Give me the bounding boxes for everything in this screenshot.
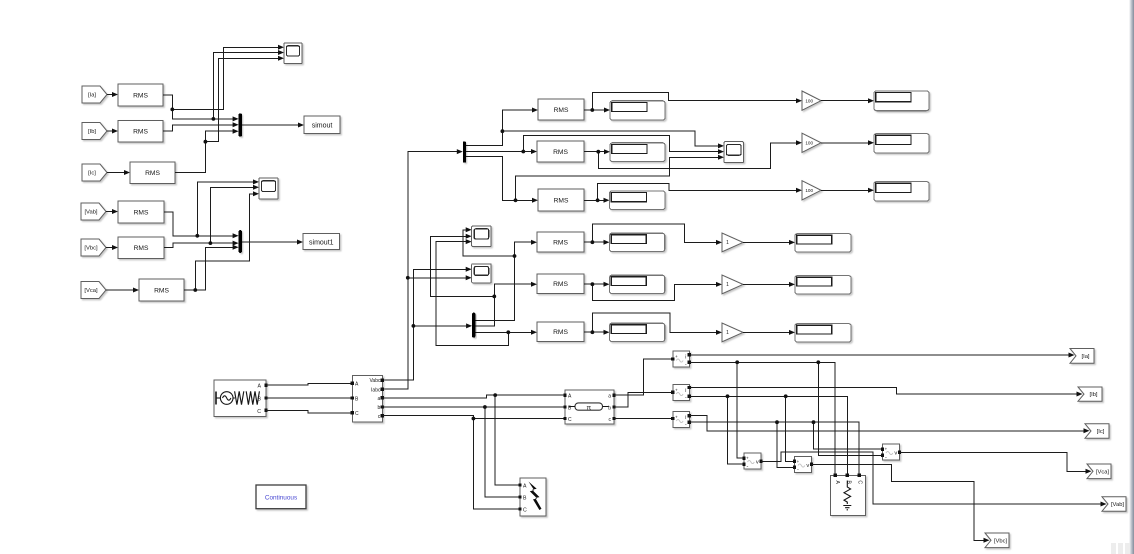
display Display5 — [610, 275, 665, 293]
gain Gain3 value 100 — [802, 181, 821, 200]
wire mux1 output to simout — [242, 124, 299, 126]
svg-text:RMS: RMS — [553, 329, 568, 336]
voltage measurement block VM3 Vca — [883, 444, 900, 460]
scope Scope1 — [284, 43, 302, 64]
svg-text:Vabc: Vabc — [369, 378, 381, 384]
wire RMS row6 to Display6 and Gain6 — [584, 313, 716, 332]
gain Gain5 value 1 — [722, 275, 743, 294]
svg-text:a: a — [378, 396, 381, 402]
wire Gain6 to Display right6 — [743, 331, 789, 333]
wire RMS row3 to Display3 and Gain3 — [584, 184, 796, 201]
svg-text:RMS: RMS — [134, 209, 149, 216]
RMS block row3 — [538, 189, 584, 211]
RMS block RMS2 — [118, 121, 163, 143]
svg-text:RMS: RMS — [154, 287, 169, 294]
svg-text:[Vab]: [Vab] — [1111, 502, 1124, 508]
wire CM1 through to load A, VM1 plus and VM3 minus — [689, 362, 882, 473]
three-phase parallel RLC load block — [830, 475, 865, 515]
wire demux2 out1 to RMS row4 and scope4 in1 — [463, 230, 531, 321]
RMS block RMS6 — [139, 279, 184, 301]
svg-text:π: π — [586, 404, 591, 411]
demux Demux2 — [472, 313, 475, 338]
wire PI line b to current measurement CM2 — [614, 392, 671, 407]
display DisplayR5 — [795, 276, 851, 294]
scope Scope4 — [472, 226, 492, 247]
svg-text:+: + — [675, 354, 678, 359]
svg-text:100: 100 — [805, 140, 813, 145]
wire Gain4 to Display right4 — [743, 241, 789, 243]
wire RMS6 output to mux2 in3 and scope2 in3 — [184, 194, 253, 290]
svg-text:RMS: RMS — [553, 281, 568, 288]
from tag [Vab] — [81, 203, 106, 220]
wire RMS row4 to Display4 and Gain4 — [584, 224, 716, 242]
goto tag [Ia] — [1070, 349, 1094, 364]
three-phase V-I measurement block — [352, 376, 382, 422]
display Display2 — [610, 143, 665, 162]
svg-text:b: b — [378, 405, 381, 411]
display Display1 — [610, 101, 665, 120]
svg-text:i: i — [685, 388, 686, 394]
wire source C to measurement C — [266, 410, 352, 412]
RMS block RMS4 — [118, 201, 164, 223]
gain Gain6 value 1 — [722, 323, 743, 342]
scope Scope2 — [259, 178, 278, 199]
svg-text:[Ib]: [Ib] — [1089, 392, 1097, 398]
svg-text:C: C — [523, 508, 527, 514]
scope Scope5 — [472, 264, 492, 283]
svg-text:v: v — [894, 451, 897, 457]
wire CM3 through to load C, VM2 minus and VM3 plus — [689, 422, 882, 473]
RMS block RMS5 — [118, 237, 164, 259]
svg-text:A: A — [523, 484, 527, 490]
wire measurement a to PI line A and fault A — [382, 395, 565, 485]
svg-text:RMS: RMS — [554, 107, 569, 114]
wire CM3 i output to goto [Ic] — [689, 416, 1084, 431]
wire measurement c to PI line C and fault C — [382, 416, 565, 509]
from tag [Vca] — [81, 282, 106, 299]
wire mux2 output to simout1 — [242, 241, 298, 243]
svg-text:simout: simout — [312, 123, 333, 130]
svg-text:RMS: RMS — [145, 170, 160, 177]
display DisplayR6 — [795, 324, 851, 342]
svg-text:[Vab]: [Vab] — [84, 210, 97, 216]
wire demux1 out2 to RMS row2 and scope3 in2 — [466, 135, 718, 151]
wire RMS row5 to Display5 and Gain5 — [584, 284, 716, 300]
wire RMS3 output to mux1 in3 and scope1 in3 — [175, 58, 278, 172]
wire CM2 through to load B, VM1 minus and VM2 plus — [689, 396, 847, 473]
svg-text:+: + — [746, 456, 749, 461]
current measurement block CM2 phase B — [673, 385, 690, 401]
wire [Vab] to RMS4 — [106, 211, 112, 213]
svg-text:-: - — [797, 467, 799, 473]
wire RMS2 output to mux1 in2 — [163, 125, 233, 131]
svg-text:+: + — [885, 447, 888, 452]
svg-text:RMS: RMS — [133, 129, 148, 136]
display DisplayR1 — [874, 91, 929, 111]
svg-text:[Vca]: [Vca] — [84, 288, 98, 294]
wire Gain3 to Display right3 — [821, 189, 868, 191]
wire RMS row2 to Display2 and Gain2 — [584, 143, 796, 169]
wire source A to measurement A — [266, 383, 352, 385]
svg-text:1: 1 — [726, 330, 729, 336]
demux Demux1 — [463, 142, 466, 163]
scope Scope3 — [724, 142, 744, 163]
svg-text:RMS: RMS — [554, 197, 569, 204]
svg-text:C: C — [257, 409, 261, 415]
svg-text:+: + — [675, 388, 678, 393]
wire Gain2 to Display right2 — [821, 142, 868, 144]
svg-text:RMS: RMS — [553, 149, 568, 156]
wire demux1 out1 to RMS row1 and scope3 in1 — [466, 110, 718, 146]
svg-text:[Ia]: [Ia] — [1081, 354, 1089, 360]
goto tag [Ic] — [1085, 424, 1109, 438]
svg-text:simout1: simout1 — [309, 240, 334, 247]
display Display4 — [610, 233, 665, 251]
wire RMS1 output to scope1 in1, scope1 in2 and mux1 in1 — [163, 47, 278, 119]
wire CM2 i output to goto [Ib] — [689, 388, 1077, 395]
svg-text:RMS: RMS — [134, 245, 149, 252]
svg-text:C: C — [355, 411, 359, 417]
wire CM1 i output to goto [Ia] — [689, 354, 1069, 356]
watermark bars bottom right — [1111, 543, 1116, 554]
wire VM2 output to goto [Vbc] — [812, 464, 984, 540]
svg-text:100: 100 — [805, 188, 813, 193]
wire RMS row1 to Display1 and Gain1 — [584, 93, 796, 110]
three-phase PI section line block — [565, 390, 614, 424]
goto tag [Vab] — [1102, 497, 1126, 511]
gain Gain1 value 100 — [802, 91, 821, 110]
svg-text:RMS: RMS — [133, 92, 148, 99]
wire [Vca] to RMS6 — [106, 289, 133, 291]
scrollbar right edge — [0, 0, 1, 1]
svg-text:C: C — [568, 417, 572, 423]
goto tag [Ib] — [1078, 387, 1102, 401]
svg-text:i: i — [685, 415, 686, 421]
wire Vabc bus from measurement block to scope5 in1 and demux2 — [382, 269, 466, 380]
to-workspace block simout1 — [303, 234, 340, 250]
RMS block RMS1 — [118, 84, 163, 106]
svg-text:RMS: RMS — [553, 239, 568, 246]
RMS block row6 — [537, 322, 584, 342]
svg-text:B: B — [258, 396, 262, 402]
wire [Vbc] to RMS5 — [106, 247, 112, 249]
wire RMS4 output to mux2 in1 and scope2 in1 — [164, 182, 253, 236]
display DisplayR3 — [874, 182, 929, 202]
wire Gain5 to Display right5 — [743, 283, 789, 285]
svg-text:1: 1 — [726, 282, 729, 288]
wire VM1 output to goto [Vab] — [761, 452, 1101, 504]
voltage measurement block VM1 Vab — [744, 453, 761, 469]
svg-text:[Ib]: [Ib] — [88, 129, 96, 135]
wire [Ic] to RMS3 — [107, 172, 124, 174]
wire demux1 out3 to RMS row3 and scope3 in3 — [466, 157, 718, 201]
RMS block row1 — [538, 99, 584, 120]
from tag [Ic] — [82, 164, 107, 181]
gain Gain4 value 1 — [722, 233, 743, 252]
svg-text:Continuous: Continuous — [265, 495, 297, 502]
svg-text:100: 100 — [805, 98, 813, 103]
display DisplayR2 — [874, 134, 929, 154]
svg-text:b: b — [608, 405, 611, 411]
from tag [Ia] — [82, 86, 107, 103]
svg-text:a: a — [608, 393, 611, 399]
svg-text:1: 1 — [726, 240, 729, 246]
display Display3 — [610, 191, 666, 210]
from tag [Vbc] — [81, 239, 106, 256]
svg-text:[Ic]: [Ic] — [88, 171, 96, 177]
wire demux2 out2 to RMS row5 and scope4 in2 — [431, 236, 532, 326]
from tag [Ib] — [82, 123, 107, 140]
to-workspace block simout — [304, 116, 340, 134]
wire PI line c to current measurement CM3 — [614, 418, 671, 420]
svg-text:v: v — [806, 463, 809, 469]
three-phase fault block — [520, 478, 546, 516]
wire [Ia] to RMS1 — [107, 94, 112, 96]
svg-text:+: + — [675, 415, 678, 420]
wire RMS5 output to mux2 in2 and scope2 in2 — [164, 187, 253, 247]
current measurement block CM1 phase A — [673, 351, 690, 367]
display DisplayR4 — [795, 234, 851, 252]
svg-text:[Vbc]: [Vbc] — [994, 538, 1008, 544]
display Display6 — [610, 323, 665, 341]
svg-text:Iabc: Iabc — [371, 387, 381, 393]
svg-text:C: C — [856, 480, 862, 484]
goto tag [Vca] — [1087, 464, 1111, 479]
svg-text:i: i — [685, 355, 686, 361]
RMS block row2 — [537, 141, 584, 162]
svg-text:v: v — [756, 460, 759, 466]
wire source B to measurement B — [266, 397, 352, 399]
powergui block Continuous — [256, 485, 306, 509]
wire VM3 output to goto [Vca] — [900, 452, 1086, 471]
voltage measurement block VM2 Vbc — [795, 457, 812, 473]
wire [Ib] to RMS2 — [107, 130, 112, 132]
gain Gain2 value 100 — [802, 133, 821, 152]
RMS block row5 — [537, 274, 584, 294]
svg-text:[Vbc]: [Vbc] — [84, 246, 98, 252]
RMS block row4 — [537, 232, 584, 252]
goto tag [Vbc] — [985, 533, 1009, 548]
svg-text:+: + — [797, 459, 800, 464]
svg-text:[Vca]: [Vca] — [1096, 469, 1110, 475]
mux Mux2 — [239, 230, 242, 253]
svg-text:[Ic]: [Ic] — [1097, 429, 1105, 435]
mux Mux1 — [239, 113, 242, 136]
wire PI line a to current measurement CM1 — [614, 359, 671, 395]
wire Iabc bus from measurement block to demux1 and scope5 in2 — [382, 152, 466, 390]
svg-text:-: - — [885, 454, 887, 460]
wire Gain1 to Display right1 — [821, 100, 868, 102]
svg-text:-: - — [746, 463, 748, 469]
RMS block RMS3 — [130, 162, 175, 184]
wire measurement b to PI line B and fault B — [382, 407, 565, 497]
current measurement block CM3 phase C — [673, 412, 690, 428]
svg-text:A: A — [258, 384, 262, 390]
three-phase source block — [214, 380, 266, 416]
svg-text:B: B — [523, 496, 527, 502]
wire demux2 out3 to RMS row6 and scope4 in3 — [436, 242, 531, 346]
svg-text:[Ia]: [Ia] — [88, 93, 96, 99]
